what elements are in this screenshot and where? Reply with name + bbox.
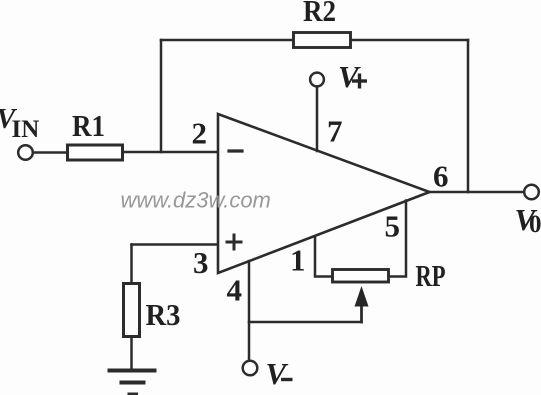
- svg-text:6: 6: [433, 159, 449, 194]
- wire output pin 6: [430, 191, 525, 194]
- svg-text:2: 2: [192, 116, 208, 151]
- resistor R3: [124, 284, 140, 337]
- wire R3 to ground: [130, 337, 133, 369]
- svg-text:5: 5: [385, 209, 401, 244]
- svg-text:V: V: [338, 59, 361, 94]
- svg-text:www.dz3w.com: www.dz3w.com: [121, 188, 271, 213]
- terminal V0 output: [524, 185, 539, 200]
- svg-text:R1: R1: [72, 108, 105, 143]
- wire pin 1 to RP left: [315, 237, 331, 277]
- wire wiper to V- net horizontal: [249, 321, 362, 324]
- wiper arrowhead: [355, 286, 369, 307]
- svg-text:0: 0: [529, 211, 541, 238]
- wire non-inverting input horizontal: [132, 243, 219, 246]
- resistor R1: [68, 145, 123, 160]
- svg-text:7: 7: [327, 114, 343, 149]
- svg-text:4: 4: [227, 273, 243, 308]
- svg-text:RP: RP: [416, 258, 446, 293]
- svg-text:R2: R2: [303, 0, 336, 28]
- wiper arrow shaft: [360, 303, 363, 322]
- wire pin 5 to RP right: [390, 201, 406, 277]
- minus sign at inverting input: [229, 149, 242, 152]
- wire input terminal to R1: [33, 151, 67, 154]
- plus sign at non-inverting input: [227, 241, 241, 244]
- svg-text:1: 1: [290, 243, 306, 278]
- svg-text:V: V: [266, 356, 289, 391]
- resistor R2: [294, 33, 351, 48]
- terminal VIN input: [18, 145, 33, 160]
- op-amp U1: [218, 114, 430, 273]
- wire feedback top horizontal: [161, 39, 468, 42]
- potentiometer RP body: [333, 270, 389, 283]
- wire R1 to inverting input node: [124, 151, 218, 154]
- wire feedback right vertical: [467, 40, 470, 192]
- wire pin 4 vertical: [248, 261, 251, 360]
- wire pin 7 V+ supply: [316, 87, 319, 151]
- wire feedback left vertical: [160, 40, 163, 152]
- svg-text:IN: IN: [12, 116, 40, 143]
- svg-text:R3: R3: [146, 297, 181, 332]
- terminal V-: [243, 361, 258, 376]
- svg-text:3: 3: [193, 245, 209, 280]
- terminal V+: [310, 73, 324, 87]
- wire node to R3: [130, 245, 133, 284]
- ground: [108, 371, 157, 395]
